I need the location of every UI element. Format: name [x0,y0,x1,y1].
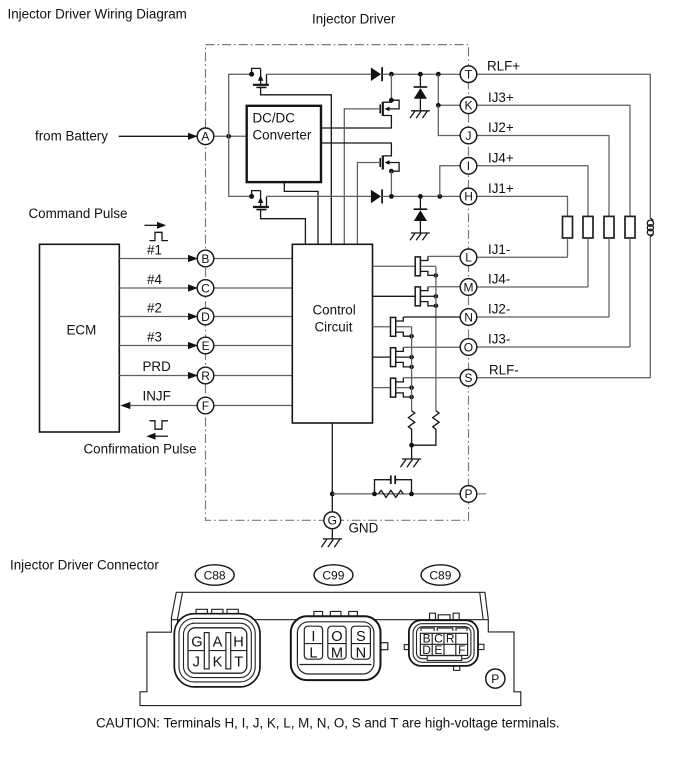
wire IJ2- from N [477,316,609,318]
wire to ground [411,445,413,459]
wire IJ4- from M [477,286,588,288]
terminal circle T [460,66,477,83]
wire Q1 gate to Control Circuit [261,87,332,244]
svg-text:E: E [434,643,442,657]
wire DC/DC bottom to Control Circuit [284,182,318,244]
svg-text:P: P [465,487,473,501]
svg-text:GND: GND [349,521,379,536]
wire T line down to transistor Q3 [390,74,392,100]
connector C88 cell divider [188,650,247,652]
connector C88 terminal slots [204,633,209,669]
svg-text:Injector Driver: Injector Driver [312,12,396,27]
svg-text:IJ1+: IJ1+ [488,181,514,196]
transistor Q6 (low-side for IJ4-) [373,287,439,308]
svg-text:C: C [201,281,210,295]
svg-text:A: A [213,634,223,650]
connector C99 pin columns [304,626,322,659]
svg-text:M: M [331,645,343,661]
terminal circle N [460,309,477,326]
connector C89 top tabs [430,613,460,620]
wire Q2 gate to Control Circuit [261,210,306,245]
svg-text:H: H [464,190,473,204]
svg-text:K: K [465,99,473,113]
diode D2 [371,190,381,204]
svg-text:D: D [201,310,210,324]
junction dot on A wire [226,134,231,139]
wire I to H branch [440,166,461,197]
terminal circle B [197,250,214,267]
terminal circle F [197,397,214,414]
svg-text:M: M [464,280,474,294]
svg-text:R: R [201,369,210,383]
wire T to K branch [438,74,460,105]
wire #2 to D [119,316,191,318]
injector load resistor RL1 [563,216,573,238]
terminal circle D [197,308,214,325]
transistor Q5 (low-side for IJ1-) [373,256,439,277]
connector C89 side tabs [404,645,409,650]
ground under G [321,539,342,547]
svg-text:K: K [213,654,223,670]
connector C99 inner lip [300,664,371,666]
svg-text:R: R [446,632,455,646]
svg-text:I: I [467,159,470,173]
terminal circle H [460,188,477,205]
wire IJ1- from L [477,256,568,258]
svg-text:T: T [234,654,243,670]
svg-text:IJ4-: IJ4- [488,272,510,287]
terminal circle C [197,280,214,297]
terminal circle A [197,128,214,145]
svg-text:D: D [422,643,431,657]
diode D1 [371,68,381,82]
svg-text:O: O [464,340,473,354]
wire branch down to transistor Q2 [229,136,250,196]
wire RL4 to IJ3- line [629,238,631,347]
svg-text:Injector Driver Connector: Injector Driver Connector [10,558,159,573]
svg-text:Command Pulse: Command Pulse [29,206,128,221]
svg-text:B: B [201,252,209,266]
dash-dot stub right of P [477,493,487,495]
injector load resistor RL3 [604,216,614,238]
terminal circle M [460,279,477,296]
wire IJ3- from O [477,346,630,348]
svg-text:C89: C89 [429,568,451,582]
svg-text:IJ2-: IJ2- [488,302,510,317]
terminal circle E [197,337,214,354]
wire Q4 gate to Control Circuit [357,163,380,245]
DC/DC converter box U2 [247,106,321,182]
junction dot at R1/R2 join [409,443,414,448]
junction dot on control-to-G wire [330,492,335,497]
wire Q5 drain to terminal L [428,255,460,257]
connector C88 shell rings [174,614,260,687]
svg-text:Circuit: Circuit [315,320,353,335]
wire RL3 to IJ2- line [608,238,610,317]
svg-text:#2: #2 [147,301,162,316]
inductor coil (relay load) [647,218,653,237]
ECM box [40,244,120,432]
resistor R3 (zigzag on P wire) [379,490,404,497]
wire H line (IJ1+) from Q2 to diode D2 [267,195,371,197]
svg-text:S: S [465,371,473,385]
wire Q7 drain to terminal N [403,316,460,318]
svg-text:from Battery: from Battery [35,129,108,144]
connector C89 shell [409,620,478,666]
svg-text:C88: C88 [204,568,226,582]
wire IJ3+ from K to load [477,105,630,216]
connector P marker circle [486,669,505,688]
svg-text:IJ3+: IJ3+ [488,90,514,105]
source rail of Q7/Q8/Q9 [411,327,413,411]
svg-text:T: T [465,68,473,82]
capacitor C1 branch [375,480,412,494]
wire RL2 to IJ4- line [587,238,589,287]
resistor R2 (zigzag) [412,411,440,446]
connector C99 right tab [381,643,388,650]
connector C89 bottom tab [454,666,460,671]
svg-text:G: G [191,634,202,650]
connector C88 top tabs [196,609,238,613]
wire Q9 drain to terminal S [403,377,460,379]
ground under ZD2 [410,233,430,240]
wire node A to DC/DC converter [214,135,247,137]
wire Q8 drain to terminal O [403,346,460,348]
transistor Q2 (battery-side p-MOSFET, bottom) [249,191,269,210]
wire Control Circuit to G node [331,423,333,512]
wire IJ2+ from J to load [477,136,609,217]
svg-text:INJF: INJF [143,389,171,404]
svg-text:CAUTION: Terminals H, I, J, K,: CAUTION: Terminals H, I, J, K, L, M, N, … [96,716,560,731]
connector body outline [140,592,521,705]
flyback diode ZD1 to ground [414,74,428,111]
connector C88 label ellipse [195,565,234,585]
svg-text:IJ1-: IJ1- [488,242,510,257]
terminal circle R [197,367,214,384]
wire G to ground [331,529,333,539]
wire coil to RLF- line [649,237,651,378]
connector C99 top tabs [314,611,358,616]
source rail of Q5/Q6 [435,266,437,410]
command pulse arrow icon [145,224,161,226]
svg-text:L: L [309,645,317,661]
command pulse waveform icon [150,232,169,240]
wire D1 to terminal T [382,73,460,75]
transistor Q1 (battery-side p-MOSFET, top) [249,68,269,87]
wire RLF- from S [477,377,650,379]
transistor Q9 (low-side for RLF-) [373,378,414,400]
wires from left terminals into Control Circuit [214,259,293,406]
connector C89 label ellipse [421,565,460,585]
terminal circle P [460,486,477,503]
svg-text:S: S [356,629,366,645]
body inner bevel lines [171,592,488,632]
terminal circle K [460,97,477,114]
svg-text:Injector Driver Wiring Diagram: Injector Driver Wiring Diagram [8,7,187,22]
wire T line (RLF+) from Q1 to diode D1 [267,73,371,75]
wire IJ4+ from I to load [477,166,588,217]
injector load resistor RL2 [583,216,593,238]
wire D2 to terminal H [382,195,460,197]
junction dots on T line [389,72,394,77]
terminal circle G (GND) [324,512,341,529]
confirmation pulse waveform icon [150,421,169,429]
svg-text:PRD: PRD [143,359,172,374]
terminal circle S [460,370,477,387]
svg-text:N: N [464,310,473,324]
terminal circle O [460,339,477,356]
svg-text:C99: C99 [322,568,344,582]
svg-text:Confirmation Pulse: Confirmation Pulse [84,442,197,457]
svg-text:#4: #4 [147,272,162,287]
svg-text:#3: #3 [147,330,162,345]
wire RLF+ from T to coil [477,74,650,218]
confirmation pulse arrow icon [153,435,169,437]
transistor Q3 (high-side MOSFET for RLF) [321,98,399,128]
transistor Q4 (high-side MOSFET for IJ1/IJ4) [321,143,399,196]
svg-text:F: F [202,399,209,413]
svg-text:DC/DC: DC/DC [253,111,296,126]
wire #4 to C [119,287,191,289]
wire K to J branch [438,105,460,135]
svg-text:N: N [356,645,367,661]
connector C99 label ellipse [314,565,353,585]
transistor Q8 (low-side for IJ3-) [373,347,414,369]
wire from Battery to node A [119,135,200,137]
terminal circle L [460,249,477,266]
resistor R1 (zigzag) [408,411,414,446]
svg-text:L: L [465,251,472,265]
svg-text:RLF+: RLF+ [487,59,520,74]
terminal circle I [460,158,477,175]
wire #1 to B [119,258,191,260]
svg-text:P: P [491,672,499,686]
ground under ZD1 [410,111,430,118]
svg-text:IJ2+: IJ2+ [488,120,514,135]
flyback diode ZD2 to ground [414,196,428,233]
wire IJ1+ from H to load [477,196,568,216]
svg-text:H: H [233,634,244,650]
terminal circle J [460,127,477,144]
svg-text:A: A [201,130,209,144]
connector C89 pin grid [420,633,467,655]
junction dots on H line [389,194,394,199]
wire to terminal P with RC network [332,493,460,495]
svg-text:J: J [193,654,200,670]
svg-text:E: E [202,339,210,353]
svg-text:Converter: Converter [253,128,312,143]
Control Circuit box U3 [292,244,372,423]
svg-text:ECM: ECM [67,323,97,338]
injector driver boundary (dash-dot box) [206,45,469,521]
wire #3 to E [119,345,191,347]
svg-text:I: I [311,629,315,645]
connector C89 key slots [421,628,467,631]
ground under R1/R2 [400,459,421,467]
svg-text:G: G [328,514,337,528]
svg-text:O: O [331,629,342,645]
svg-text:RLF-: RLF- [489,362,519,377]
wire RL1 to IJ1- line [567,238,569,257]
transistor Q7 (low-side for IJ2-) [373,317,414,339]
svg-text:IJ4+: IJ4+ [488,150,514,165]
wire INJF from F to ECM [127,405,198,407]
wire Q6 drain to terminal M [428,286,460,288]
wire PRD to R [119,375,191,377]
svg-text:F: F [458,643,465,657]
svg-text:Control: Control [313,303,356,318]
svg-text:#1: #1 [147,243,162,258]
wire Q3 gate to Control Circuit [344,109,380,244]
wire branch up to transistor Q1 [229,74,250,136]
svg-text:IJ3-: IJ3- [488,332,510,347]
injector load resistor RL4 [625,216,635,238]
svg-text:J: J [466,129,472,143]
connector C99 shell [291,616,381,680]
